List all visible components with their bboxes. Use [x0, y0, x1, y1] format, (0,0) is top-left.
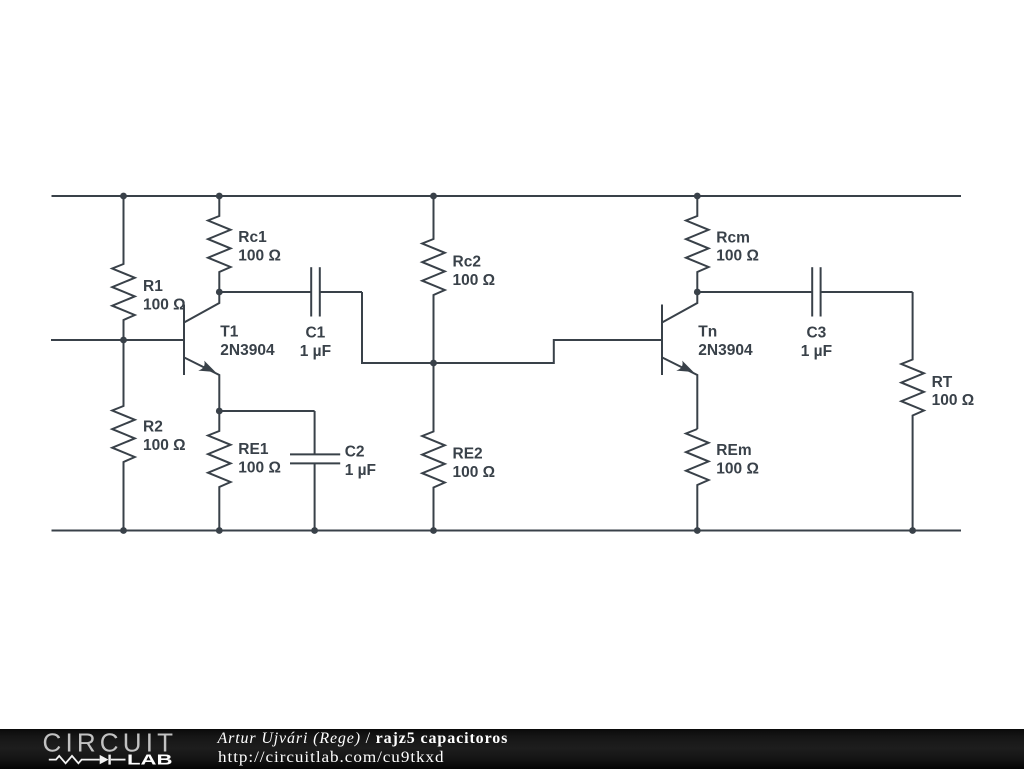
resistor R2: [112, 340, 135, 531]
wire node to Tn base: [434, 340, 662, 363]
node T1 emitter / RE1 / C2 junction: [216, 408, 223, 415]
wire input to T1 base: [51, 339, 184, 341]
resistor Rc1: [208, 196, 231, 292]
node top rail / Rc1: [216, 193, 223, 200]
node bottom rail / REm: [694, 527, 701, 534]
node bottom rail / RE2: [430, 527, 437, 534]
wire T1 emitter node to C2: [219, 410, 314, 412]
logo symbol resistor-diode: [49, 755, 126, 765]
node top rail / Rcm: [694, 193, 701, 200]
wire top power rail: [52, 195, 962, 197]
footer bar: [0, 729, 1024, 769]
node T1 collector: [216, 289, 223, 296]
node Tn collector: [694, 289, 701, 296]
resistor RE1: [208, 411, 231, 531]
node top rail / R1: [120, 193, 127, 200]
resistor RE2: [422, 363, 445, 531]
node input / R1 R2 junction: [120, 337, 127, 344]
capacitor C1: [219, 267, 362, 316]
capacitor C3: [697, 267, 912, 316]
resistor REm: [686, 429, 709, 531]
transistor T1: [184, 292, 219, 411]
wire bottom ground rail: [52, 530, 962, 532]
node bottom rail / RE1: [216, 527, 223, 534]
resistor R1: [112, 196, 135, 340]
transistor Tn: [662, 292, 697, 429]
resistor RT: [901, 292, 924, 531]
resistor Rcm: [686, 196, 709, 292]
svg-text:LAB: LAB: [127, 753, 173, 769]
capacitor C2: [290, 411, 340, 531]
node top rail / Rc2: [430, 193, 437, 200]
node bottom rail / C2: [311, 527, 318, 534]
resistor Rc2: [422, 196, 445, 363]
footer credit text: [218, 730, 509, 767]
node bottom rail / R2: [120, 527, 127, 534]
node bottom rail / RT: [909, 527, 916, 534]
node Rc2 / RE2 / C1 junction: [430, 360, 437, 367]
wire C1 output to node: [362, 292, 434, 363]
